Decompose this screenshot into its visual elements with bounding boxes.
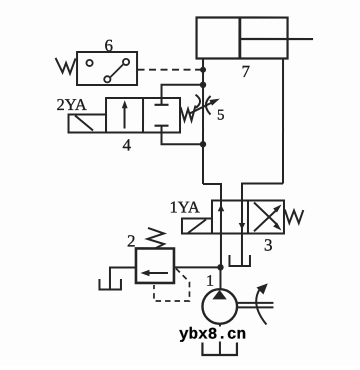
pressure switch 6 spring [56,58,76,74]
svg-text:2: 2 [127,231,136,250]
svg-text:ybx8.cn: ybx8.cn [179,325,246,343]
solenoid of valve 4 [69,114,107,132]
pressure switch 6 box [77,52,137,85]
cylinder 7 rod [239,38,313,40]
relief valve 2 body [136,248,174,283]
valve 3 body [212,201,284,234]
node: pilot junction [200,67,206,73]
relief valve 2 flow arrow [146,272,168,274]
svg-text:4: 4 [123,135,132,154]
pump 1 drive shaft double line [237,302,274,304]
svg-text:6: 6 [105,36,114,55]
valve 3 position divider [247,201,249,234]
wire: valve 3 right port down to tank [241,234,243,266]
pump 1 circle [202,289,237,324]
pressure switch 6 contact circle bottom [104,76,110,82]
pump 1 variable adjust arc arrow [256,290,266,325]
svg-text:1: 1 [206,273,214,290]
pressure switch 6 contact arm [111,64,124,77]
throttle valve 5 right arc [206,96,211,115]
wire: dashed pilot line from switch 6 to node [138,69,202,71]
wire: valve 4 bottom port to node [162,132,204,144]
wire: relief valve drain to tank [110,267,136,288]
cylinder 7 piston [238,18,241,59]
tank under pump [202,343,237,356]
watermark background [177,326,248,341]
node: pump outlet junction [217,264,223,270]
relief valve 2 spring [147,228,164,249]
wire: valve 4 top port to node [162,85,204,98]
wire: cylinder rod port down [282,59,284,184]
pressure switch 6 contact circle left [86,60,92,66]
cylinder 7 body [197,18,288,59]
wire: relief valve branch [174,266,221,268]
solenoid of valve 3 [182,219,212,234]
svg-text:5: 5 [217,108,225,124]
wire: cylinder cap port down (node line) [202,59,204,184]
pressure switch 6 contact circle right [123,59,129,65]
node: bypass bottom [200,141,206,147]
tank for relief valve 2 [99,279,121,290]
node: bypass top [200,82,206,88]
valve 4 return spring [181,106,196,121]
valve 4 blocked port top (right square) [161,98,163,105]
valve 3 right flow path down arrow [241,201,243,234]
wire: pump to node [219,267,221,290]
svg-text:3: 3 [264,236,273,255]
wire: jog to valve 3 right port [242,184,283,201]
svg-text:7: 7 [242,62,251,81]
valve 3 left flow path up arrow [220,201,222,234]
svg-text:2YA: 2YA [57,95,87,114]
relief valve 2 pilot line (dashed) [154,268,190,301]
throttle valve 5 adjust arrow [190,102,213,113]
valve 3 return spring [285,210,304,224]
valve 3 crossed path (right square) [254,209,278,231]
tank under valve 3 [229,255,250,266]
valve 4 position divider [142,98,144,133]
pump 1 flow triangle [212,290,226,300]
valve 4 blocked port bottom (right square) [155,125,169,127]
wire: pump suction line [219,324,221,356]
wire: valve 3 left port down to pump node [220,234,222,268]
wire: jog to valve 3 left port [203,184,221,201]
valve 4 body [106,98,180,133]
valve 4 flow arrow (left square) [124,106,126,129]
svg-text:1YA: 1YA [169,197,199,216]
throttle valve 5 left arc [196,95,201,108]
